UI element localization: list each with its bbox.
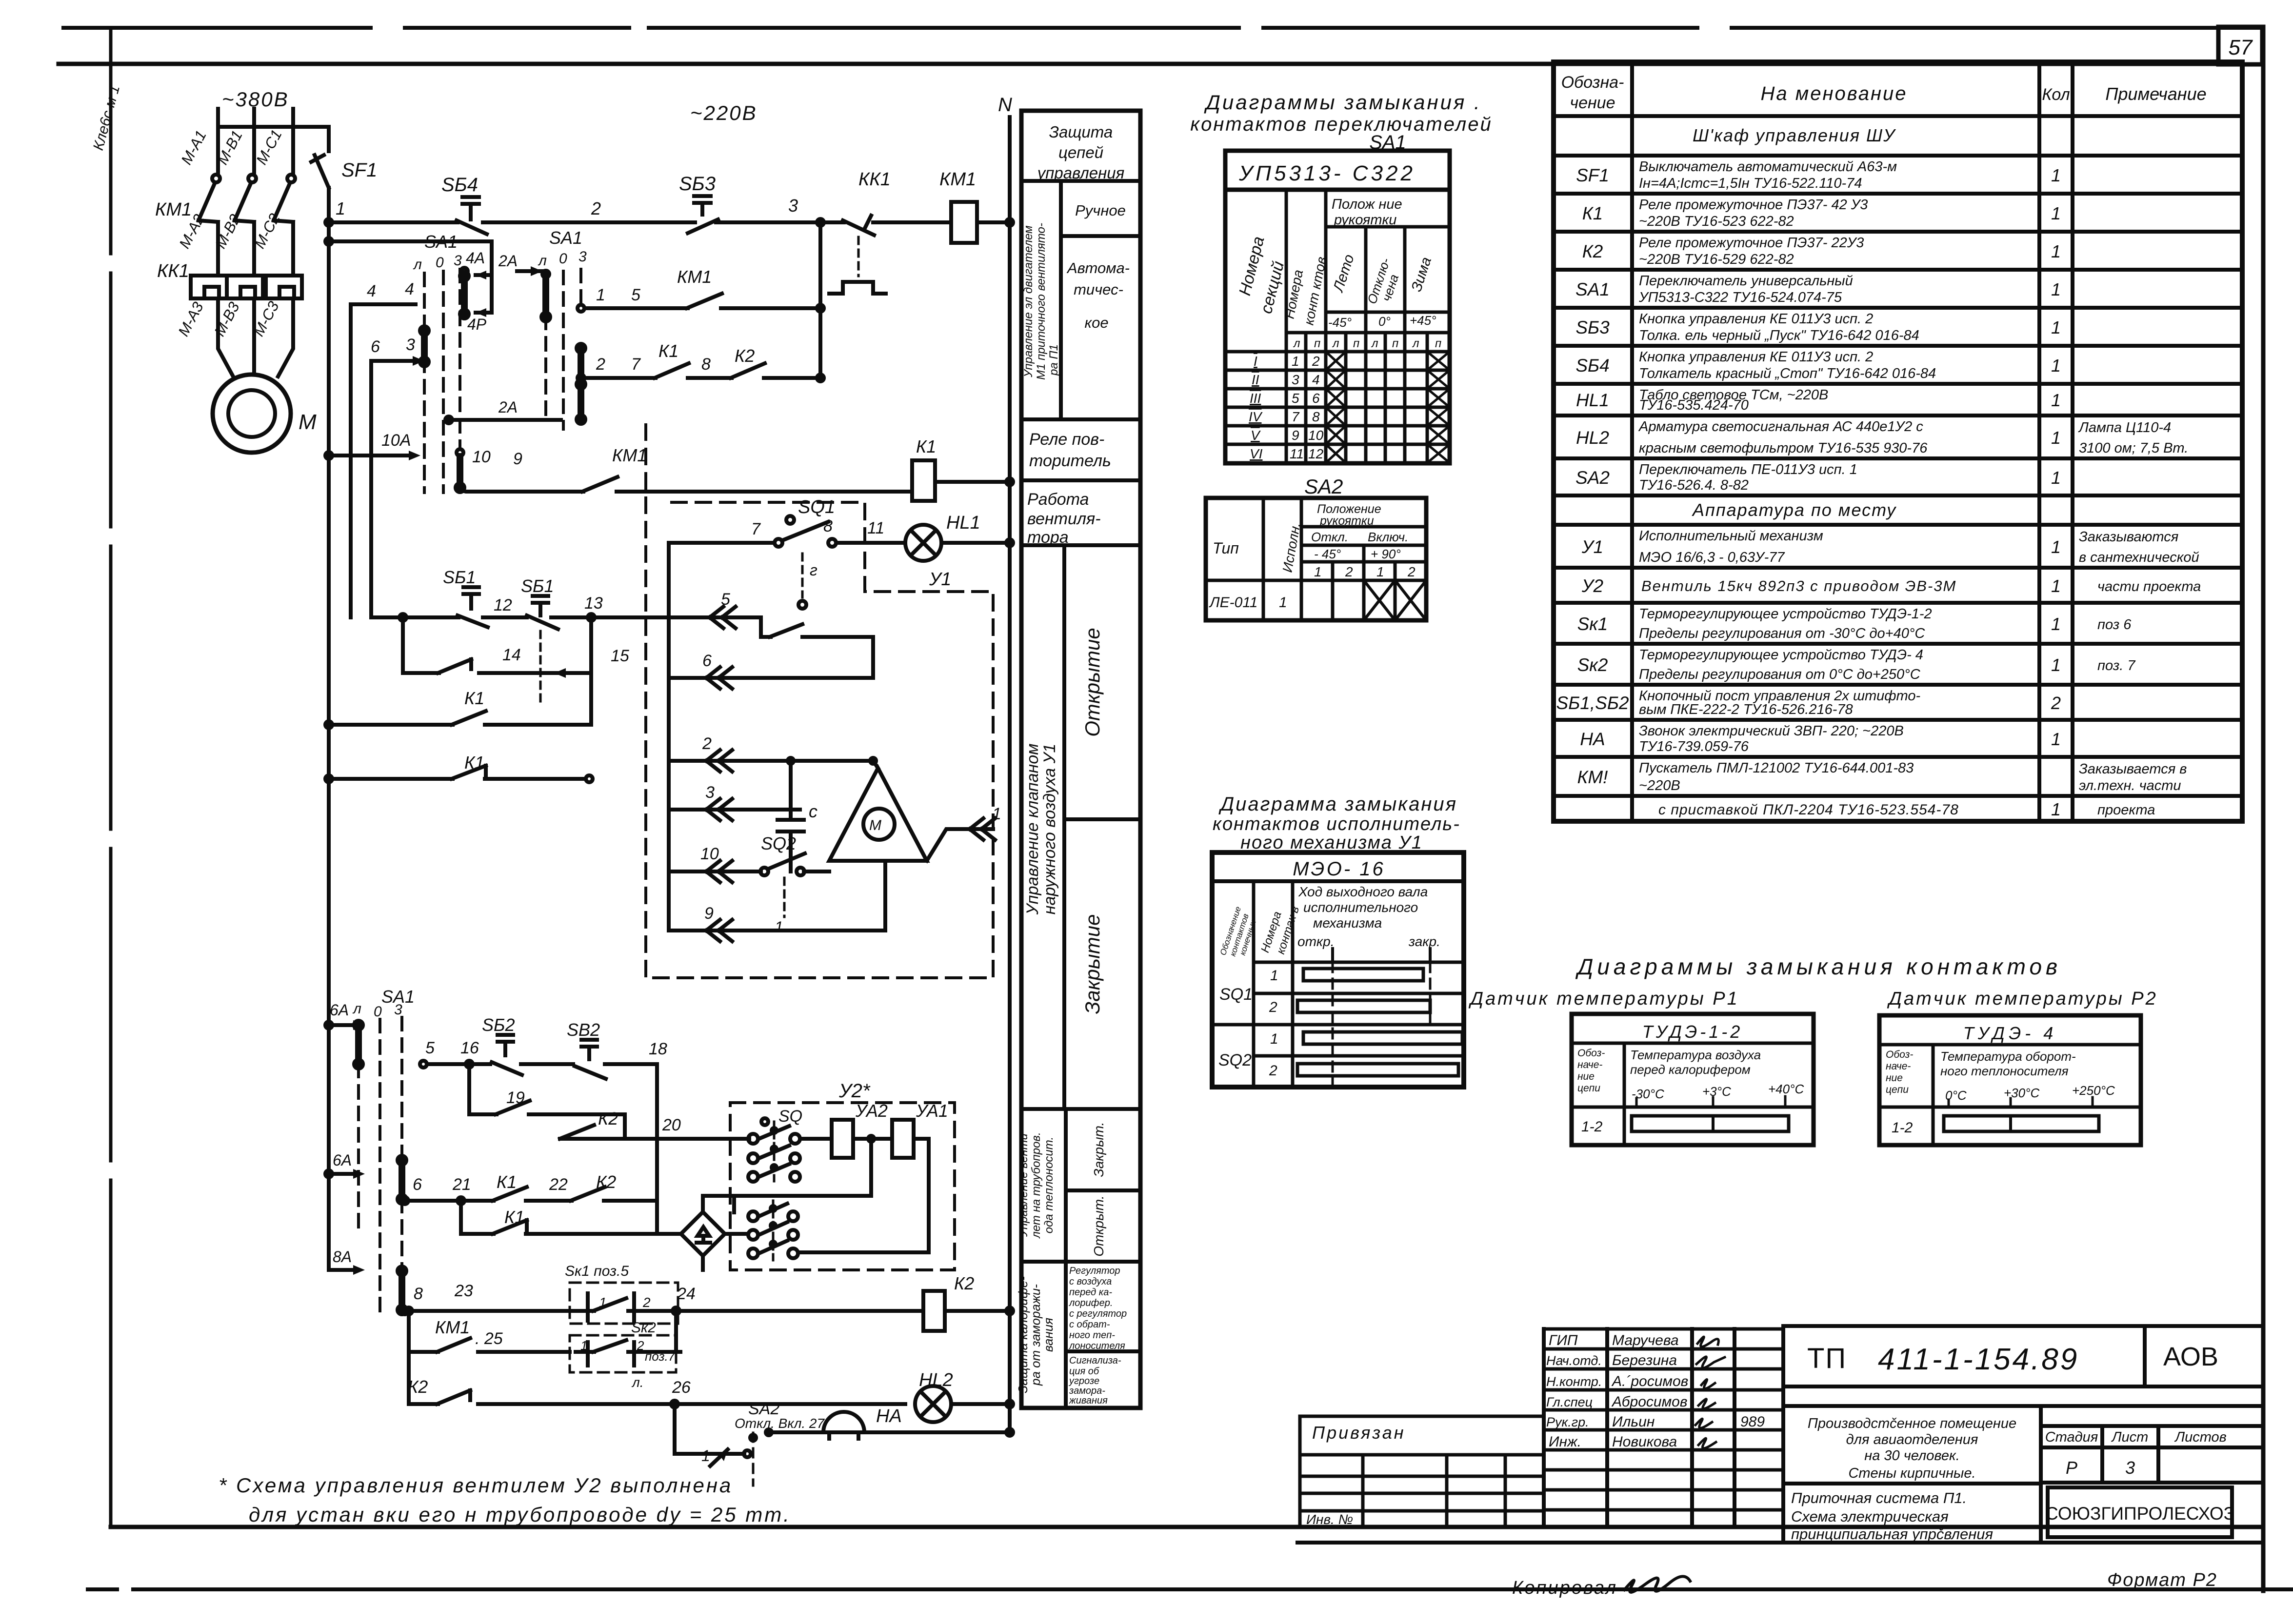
svg-text:Стадия: Стадия	[2045, 1429, 2098, 1445]
svg-text:К1: К1	[916, 436, 936, 456]
frame top border	[59, 62, 2218, 66]
svg-text:Автома-: Автома-	[1066, 259, 1130, 277]
SA1 contact 8	[399, 1271, 405, 1310]
svg-text:SБ1: SБ1	[521, 576, 554, 596]
svg-text:г: г	[810, 561, 818, 579]
svg-text:М: М	[299, 410, 317, 434]
svg-text:Заказываются: Заказываются	[2079, 529, 2178, 545]
svg-text:п: п	[1353, 337, 1359, 350]
connector pin 1	[927, 829, 993, 861]
svg-text:вания: вания	[1041, 1318, 1056, 1352]
svg-text:1: 1	[2051, 576, 2061, 596]
svg-text:HL2: HL2	[919, 1370, 953, 1390]
svg-text:Кнопка управления КЕ 011У3 ис: Кнопка управления КЕ 011У3 исп. 2	[1639, 311, 1873, 327]
row lines	[1554, 116, 2242, 796]
svg-text:Обоз-: Обоз-	[1577, 1048, 1605, 1059]
svg-text:1: 1	[775, 918, 783, 936]
svg-text:управления: управления	[1037, 164, 1125, 182]
svg-text:ние: ние	[1577, 1071, 1595, 1082]
svg-text:У1: У1	[1581, 537, 1603, 557]
pushbutton SB3	[688, 196, 844, 233]
svg-text:6: 6	[413, 1175, 422, 1194]
svg-text:Лампа Ц110-4: Лампа Ц110-4	[2078, 420, 2171, 436]
wire rung SB1	[371, 615, 669, 619]
FUNCTION COLUMN	[1016, 111, 1140, 1408]
svg-text:10А: 10А	[381, 431, 411, 450]
pushbutton SB1	[458, 587, 488, 627]
svg-text:1: 1	[2051, 468, 2061, 488]
svg-text:угрозе: угрозе	[1068, 1376, 1099, 1386]
svg-text:1: 1	[1292, 354, 1299, 369]
svg-text:ТУ16-526.4. 8-82: ТУ16-526.4. 8-82	[1639, 477, 1749, 493]
svg-text:цепи: цепи	[1886, 1084, 1909, 1095]
svg-text:6А: 6А	[333, 1151, 352, 1169]
svg-text:Маручева: Маручева	[1612, 1332, 1679, 1348]
svg-text:на 30 человек.: на 30 человек.	[1864, 1448, 1960, 1464]
svg-text:SБ4: SБ4	[1575, 356, 1609, 376]
svg-text:III: III	[1250, 391, 1261, 406]
bus L vertical	[327, 222, 331, 1270]
svg-text:Реле пов-: Реле пов-	[1029, 430, 1104, 449]
svg-text:наче-: наче-	[1577, 1059, 1602, 1070]
signatures scribbles	[1695, 1337, 1725, 1448]
svg-text:Сигнализа-: Сигнализа-	[1069, 1355, 1121, 1366]
svg-text:411-1-154.89: 411-1-154.89	[1878, 1343, 2079, 1376]
svg-text:2: 2	[1269, 999, 1277, 1015]
svg-text:Sк1: Sк1	[1577, 614, 1608, 634]
svg-text:Диаграмма замыкания: Диаграмма замыкания	[1218, 793, 1457, 815]
limit switch SQ2	[760, 868, 768, 875]
wire rung 8-23-24	[401, 1307, 408, 1314]
svg-text:К2: К2	[1582, 241, 1603, 261]
svg-text:АОВ: АОВ	[2163, 1342, 2218, 1371]
SA1 contact 3 lower	[399, 1160, 405, 1199]
svg-text:Iн=4А;Iстс=1,5Iн ТУ16-5: Iн=4А;Iстс=1,5Iн ТУ16-522.110-74	[1639, 176, 1862, 191]
wire 380V bus	[218, 125, 329, 129]
svg-text:24: 24	[677, 1285, 696, 1303]
svg-text:Ход выходного вала: Ход выходного вала	[1298, 884, 1428, 899]
svg-text:красным светофильтром ТУ16-53: красным светофильтром ТУ16-535 930-76	[1639, 440, 1928, 456]
svg-text:Терморегулирующее устройство Т: Терморегулирующее устройство ТУДЭ-1-2	[1639, 606, 1932, 622]
SA1 contact 10	[457, 449, 463, 456]
svg-text:3100 ом; 7,5 Вт.: 3100 ом; 7,5 Вт.	[2079, 440, 2188, 456]
svg-text:КМ1: КМ1	[435, 1317, 470, 1337]
svg-text:Переключатель ПЕ-011У3 исп.: Переключатель ПЕ-011У3 исп. 1	[1639, 462, 1857, 477]
svg-text:Пределы регулирования от -30°: Пределы регулирования от -30°С до+40°С	[1639, 626, 1925, 641]
svg-text:Звонок электрический ЗВП- 22: Звонок электрический ЗВП- 220; ~220В	[1639, 723, 1904, 739]
svg-text:57: 57	[2229, 36, 2253, 59]
thermal relay KK1 heater phase А	[191, 276, 227, 298]
bell HA	[769, 1412, 1010, 1439]
svg-text:Управление клапаном: Управление клапаном	[1023, 744, 1042, 915]
svg-text:ция об: ция об	[1069, 1366, 1099, 1377]
svg-text:6А: 6А	[330, 1001, 349, 1019]
svg-text:+30°С: +30°С	[2004, 1086, 2040, 1100]
svg-text:Абросимов: Абросимов	[1611, 1394, 1688, 1410]
SA1 contact 2A col	[542, 271, 549, 277]
svg-text:вентиля-: вентиля-	[1027, 510, 1101, 528]
svg-text:Гл.спец: Гл.спец	[1546, 1395, 1593, 1409]
wire branch 16 down	[467, 1064, 471, 1114]
limit switch SQ1	[775, 539, 782, 547]
svg-text:Полож ние: Полож ние	[1332, 197, 1402, 212]
contactor coil KM1	[951, 202, 977, 243]
svg-text:К2: К2	[596, 1172, 616, 1192]
pushbutton SB2a	[492, 1035, 522, 1075]
SA1 contact on col1	[421, 331, 428, 362]
pushbutton SB1b	[527, 596, 558, 629]
svg-text:Ш'каф управления ШУ: Ш'каф управления ШУ	[1693, 125, 1896, 145]
wire rung KM1-25	[409, 1338, 570, 1352]
svg-text:Р: Р	[2066, 1458, 2077, 1478]
wire rung 10 SQ2	[669, 870, 829, 873]
svg-text:Работа: Работа	[1027, 490, 1089, 509]
svg-text:+45°: +45°	[1410, 313, 1436, 328]
svg-text:* Схема управления вентилем: * Схема управления вентилем У2 выполнена	[219, 1474, 733, 1497]
svg-text:торитель: торитель	[1029, 452, 1111, 470]
svg-text:12: 12	[494, 596, 512, 614]
wire rung K1 seal	[325, 721, 332, 728]
svg-text:8А: 8А	[333, 1248, 352, 1266]
valve Y2 dashed enclosure	[730, 1103, 955, 1270]
svg-text:Ручное: Ручное	[1075, 202, 1126, 219]
svg-text:9: 9	[704, 904, 714, 923]
svg-text:20: 20	[662, 1116, 681, 1134]
wire YA1 return	[800, 1139, 929, 1252]
svg-text:л: л	[413, 257, 422, 273]
svg-text:проекта: проекта	[2097, 802, 2155, 818]
wire phase А stub	[216, 109, 220, 174]
svg-text:вым ПКЕ-222-2 ТУ16-526.21: вым ПКЕ-222-2 ТУ16-526.216-78	[1639, 702, 1853, 717]
svg-text:тора: тора	[1027, 528, 1069, 547]
wire 6A arrow upper	[325, 1022, 332, 1029]
svg-text:п: п	[1392, 337, 1398, 350]
wire 4-4	[351, 302, 416, 306]
svg-text:Открыт.: Открыт.	[1091, 1195, 1106, 1256]
heading SA1 diagram	[1190, 91, 1492, 153]
svg-text:14: 14	[502, 646, 521, 664]
svg-text:1: 1	[2051, 799, 2061, 819]
svg-text:в сантехнической: в сантехнической	[2079, 550, 2199, 565]
svg-text:2А: 2А	[498, 252, 518, 270]
svg-text:8: 8	[701, 355, 711, 374]
wire rung K1 NC lower	[461, 1201, 657, 1234]
svg-text:1: 1	[2051, 356, 2061, 376]
svg-text:SБ1,SБ2: SБ1,SБ2	[1556, 693, 1629, 713]
svg-text:10: 10	[1308, 428, 1324, 443]
svg-text:1: 1	[701, 1447, 710, 1465]
lamp HL2	[915, 1386, 951, 1422]
svg-text:части проекта: части проекта	[2097, 579, 2201, 594]
svg-text:МЭО- 16: МЭО- 16	[1293, 858, 1385, 880]
wire rung 10-9	[460, 477, 912, 492]
svg-text:рукоятки: рукоятки	[1319, 514, 1374, 528]
svg-text:контактов переключателей: контактов переключателей	[1190, 114, 1492, 135]
svg-text:8: 8	[823, 517, 833, 535]
contactor KM1 main contact phase В	[248, 175, 256, 182]
svg-text:IV: IV	[1249, 409, 1263, 424]
plug contact pair lower 2	[748, 1230, 758, 1240]
contactor KM1 main contact phase А	[212, 175, 220, 182]
svg-text:0: 0	[559, 251, 567, 267]
wire phase С to motor	[291, 298, 295, 344]
svg-text:КМ1: КМ1	[677, 267, 712, 287]
plug contact pair lower 3	[748, 1248, 758, 1258]
svg-text:SБ1: SБ1	[443, 567, 476, 587]
svg-text:с обрат-: с обрат-	[1069, 1319, 1110, 1330]
svg-text:лет на трубопров.: лет на трубопров.	[1030, 1132, 1043, 1239]
wire 10A	[325, 452, 332, 459]
svg-text:У1: У1	[929, 569, 951, 590]
wire motor leads	[218, 344, 293, 376]
wire to N	[935, 480, 1010, 484]
capacitor C	[778, 761, 804, 871]
svg-text:наче-: наче-	[1886, 1061, 1911, 1072]
sheet bottom edge line	[88, 1587, 2293, 1591]
svg-text:ТП: ТП	[1807, 1343, 1847, 1374]
svg-text:поз 6: поз 6	[2097, 617, 2132, 633]
svg-text:1: 1	[2051, 241, 2061, 261]
connector pin 5	[710, 607, 736, 628]
svg-text:4А: 4А	[466, 249, 485, 267]
svg-text:2: 2	[702, 734, 712, 753]
pushbutton SB2b	[575, 1040, 606, 1079]
plug contact pair 1	[748, 1134, 758, 1144]
svg-text:К1: К1	[1582, 203, 1603, 223]
svg-text:1: 1	[1279, 594, 1287, 611]
svg-text:Схема электрическая: Схема электрическая	[1791, 1508, 1949, 1525]
svg-text:~220В: ~220В	[1639, 778, 1680, 793]
svg-text:6: 6	[1312, 391, 1320, 406]
svg-text:2: 2	[637, 1338, 644, 1353]
svg-text:2: 2	[642, 1295, 651, 1310]
wire rung K2-26	[409, 1390, 1010, 1404]
svg-text:8: 8	[1312, 409, 1320, 424]
wire rung 2 capacitor	[669, 759, 873, 763]
wire 2A lower	[449, 418, 561, 422]
svg-text:УП5313- С322: УП5313- С322	[1238, 161, 1416, 185]
svg-text:Датчик температуры Р2: Датчик температуры Р2	[1887, 989, 2158, 1009]
svg-text:+40°С: +40°С	[1768, 1082, 1804, 1096]
bus N vertical	[1008, 117, 1012, 1432]
svg-text:Откл. Вкл. 27: Откл. Вкл. 27	[735, 1416, 825, 1431]
wire rung 3	[669, 808, 800, 812]
wire 6A arrow lower	[325, 1170, 332, 1177]
sheet number box 57	[2218, 27, 2262, 64]
svg-text:1: 1	[1376, 564, 1384, 579]
svg-text:ного теп-: ного теп-	[1069, 1330, 1115, 1341]
svg-text:ного теплоносителя: ного теплоносителя	[1940, 1064, 2069, 1078]
motor M2 delta	[829, 768, 927, 861]
svg-text:6: 6	[702, 652, 712, 670]
svg-text:л: л	[538, 253, 547, 269]
svg-text:л.: л.	[631, 1375, 644, 1390]
svg-text:механизма: механизма	[1313, 915, 1382, 931]
main title box	[1783, 1326, 2263, 1543]
svg-text:7: 7	[1292, 409, 1300, 424]
relay coil K1	[912, 460, 935, 501]
svg-text:1: 1	[2051, 428, 2061, 448]
svg-text:5: 5	[721, 590, 730, 609]
wire 6-3	[371, 359, 414, 363]
svg-text:Рук.гр.: Рук.гр.	[1546, 1415, 1589, 1429]
svg-text:К2: К2	[408, 1377, 428, 1397]
solenoid coil YA1	[853, 1137, 892, 1141]
svg-text:-45°: -45°	[1328, 315, 1352, 330]
svg-text:22: 22	[549, 1175, 568, 1194]
svg-text:1: 1	[2051, 203, 2061, 223]
svg-text:цепей: цепей	[1058, 143, 1103, 161]
svg-text:SБ3: SБ3	[1575, 317, 1610, 337]
svg-text:Инв. №: Инв. №	[1306, 1512, 1353, 1527]
svg-text:1: 1	[2051, 614, 2061, 634]
svg-text:1: 1	[596, 286, 605, 304]
wire rung 20 K2	[560, 1125, 625, 1139]
relay coil K2	[923, 1291, 945, 1331]
svg-text:Привязан: Привязан	[1312, 1423, 1406, 1443]
МЭО-16 table	[1212, 852, 1464, 1087]
svg-text:живания: живания	[1069, 1395, 1108, 1406]
svg-text:SБ4: SБ4	[441, 174, 478, 196]
svg-text:ного механизма У1: ного механизма У1	[1240, 832, 1423, 853]
wire rung 9	[669, 861, 885, 931]
wire rung3 K1 K2	[578, 375, 584, 381]
svg-text:ра П1: ра П1	[1047, 344, 1060, 376]
thermal relay KK1 heater phase С	[266, 276, 302, 298]
svg-text:с: с	[809, 801, 818, 821]
wire phase В stub	[252, 109, 256, 174]
svg-text:КК1: КК1	[157, 261, 189, 281]
svg-text:SБ3: SБ3	[679, 173, 716, 195]
wire phase С stub	[291, 109, 295, 174]
svg-text:4: 4	[405, 280, 414, 298]
wire rung 21-22	[401, 1197, 408, 1204]
lamp HL1	[905, 525, 941, 561]
svg-text:Закрытие: Закрытие	[1081, 914, 1104, 1014]
svg-text:Обозна-: Обозна-	[1561, 73, 1624, 92]
svg-text:21: 21	[452, 1175, 471, 1194]
svg-text:1: 1	[599, 1295, 607, 1310]
PARTS TABLE	[1554, 62, 2242, 821]
svg-text:1: 1	[2051, 655, 2061, 675]
svg-text:1: 1	[2051, 537, 2061, 557]
svg-text:~220В ТУ16-523 622-82: ~220В ТУ16-523 622-82	[1639, 214, 1794, 229]
svg-text:4: 4	[1312, 372, 1320, 387]
svg-text:SA2: SA2	[1575, 468, 1610, 488]
svg-text:19: 19	[506, 1089, 525, 1107]
svg-text:кое: кое	[1084, 314, 1108, 331]
svg-text:Тип: Тип	[1213, 539, 1239, 557]
svg-text:SQ2: SQ2	[761, 833, 796, 853]
svg-text:18: 18	[649, 1040, 667, 1058]
svg-text:Откл.: Откл.	[1311, 530, 1348, 544]
svg-text:л: л	[352, 1001, 361, 1017]
svg-text:М1 приточного вентилято-: М1 приточного вентилято-	[1035, 223, 1048, 380]
svg-text:2: 2	[1312, 354, 1320, 369]
svg-text:+3°С: +3°С	[1702, 1084, 1731, 1099]
svg-text:3: 3	[578, 249, 587, 265]
svg-text:Диаграммы замыкания .: Диаграммы замыкания .	[1204, 91, 1481, 114]
svg-text:лоносителя: лоносителя	[1069, 1341, 1125, 1351]
svg-text:26: 26	[672, 1378, 691, 1397]
svg-text:Пускатель ПМЛ-121002 ТУ16-64: Пускатель ПМЛ-121002 ТУ16-644.001-83	[1639, 760, 1914, 776]
svg-text:10: 10	[700, 845, 719, 863]
svg-text:ода теплоносит.: ода теплоносит.	[1042, 1137, 1056, 1233]
bus 3 vertical	[369, 361, 373, 617]
svg-text:ТУ16-739.059-76: ТУ16-739.059-76	[1639, 739, 1749, 754]
wire branch SA2	[671, 1401, 678, 1407]
svg-text:HL1: HL1	[1576, 390, 1609, 410]
svg-text:SF1: SF1	[1576, 165, 1609, 185]
svg-text:Арматура светосигнальная АС 44: Арматура светосигнальная АС 440е1У2 с	[1638, 419, 1923, 435]
svg-text:1: 1	[2051, 279, 2061, 299]
signature table grid	[1544, 1326, 1783, 1543]
svg-text:3: 3	[705, 783, 715, 802]
svg-text:рукоятки: рукоятки	[1334, 212, 1396, 228]
svg-text:СОЮЗГИПРОЛЕСХОЗ: СОЮЗГИПРОЛЕСХОЗ	[2045, 1504, 2234, 1524]
svg-text:К1: К1	[497, 1172, 517, 1192]
svg-text:Диаграммы замыкания контакто: Диаграммы замыкания контактов	[1575, 954, 2061, 979]
svg-text:9: 9	[513, 450, 522, 468]
svg-text:п: п	[1435, 337, 1441, 350]
svg-text:НА: НА	[876, 1406, 902, 1426]
svg-text:Обоз-: Обоз-	[1886, 1049, 1913, 1060]
svg-text:13: 13	[584, 594, 603, 613]
svg-text:ние: ние	[1886, 1072, 1903, 1084]
svg-text:1: 1	[2051, 317, 2061, 337]
svg-text:Реле промежуточное ПЭ37- 22У3: Реле промежуточное ПЭ37- 22У3	[1639, 235, 1864, 251]
svg-text:5: 5	[631, 286, 640, 304]
wire rung 5-16-18	[420, 1061, 427, 1068]
X marks	[1326, 352, 1346, 463]
svg-text:- 45°: - 45°	[1314, 547, 1341, 561]
svg-text:К2: К2	[598, 1109, 618, 1129]
node 1	[325, 219, 332, 226]
pushbutton SB4	[457, 197, 695, 234]
wire phase В to motor	[252, 298, 256, 344]
svg-text:+250°С: +250°С	[2072, 1083, 2115, 1098]
svg-text:1-2: 1-2	[1581, 1119, 1603, 1135]
svg-text:закр.: закр.	[1408, 934, 1440, 949]
svg-text:У2*: У2*	[838, 1080, 871, 1102]
svg-text:для авиаотделения: для авиаотделения	[1846, 1432, 1978, 1447]
wire rung 6	[669, 676, 873, 680]
svg-text:перед ка-: перед ка-	[1069, 1287, 1112, 1298]
svg-text:4: 4	[367, 282, 376, 300]
svg-text:замора-: замора-	[1069, 1386, 1105, 1396]
svg-text:ЛЕ-011: ЛЕ-011	[1209, 594, 1257, 611]
svg-text:К1: К1	[464, 753, 484, 772]
svg-text:с воздуха: с воздуха	[1069, 1276, 1112, 1287]
svg-text:0: 0	[436, 255, 444, 271]
svg-text:п: п	[1314, 337, 1320, 350]
svg-text:Регулятор: Регулятор	[1069, 1266, 1120, 1276]
svg-text:SQ1: SQ1	[798, 497, 835, 517]
svg-text:Березина: Березина	[1612, 1352, 1677, 1368]
svg-text:II: II	[1252, 372, 1259, 387]
svg-text:SA2: SA2	[1304, 475, 1343, 498]
svg-text:поз. 7: поз. 7	[2097, 658, 2136, 673]
svg-text:НА: НА	[1580, 729, 1605, 749]
svg-text:2: 2	[1345, 564, 1353, 579]
svg-text:л: л	[1293, 337, 1300, 350]
svg-text:чение: чение	[1570, 94, 1615, 112]
svg-text:откр.: откр.	[1297, 934, 1334, 949]
svg-text:SQ1: SQ1	[1219, 985, 1253, 1004]
wire branch down from 23	[405, 1307, 412, 1314]
DIAGRAM TABLES	[1190, 91, 2157, 1145]
svg-text:УП5313-С322 ТУ16-524.: УП5313-С322 ТУ16-524.074-75	[1638, 290, 1842, 305]
